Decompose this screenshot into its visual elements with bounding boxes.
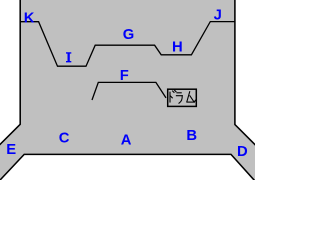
riser F outline	[92, 82, 166, 100]
svg-text:C: C	[59, 131, 70, 147]
svg-text:K: K	[24, 10, 35, 26]
katakana RA	[176, 93, 182, 103]
stage diagram	[0, 0, 255, 180]
drum box	[168, 89, 197, 106]
svg-text:B: B	[186, 128, 197, 144]
katakana MU	[187, 92, 196, 102]
svg-text:H: H	[172, 39, 183, 55]
back riser zigzag K/I/G/H/J	[20, 22, 235, 67]
svg-text:J: J	[214, 8, 222, 24]
svg-text:F: F	[120, 68, 129, 84]
svg-text:G: G	[123, 27, 135, 43]
svg-text:D: D	[237, 144, 248, 160]
label I (serif style, drawn)	[66, 52, 71, 62]
svg-text:E: E	[6, 142, 16, 158]
katakana DO (drum label)	[170, 90, 176, 102]
svg-text:A: A	[121, 133, 132, 149]
